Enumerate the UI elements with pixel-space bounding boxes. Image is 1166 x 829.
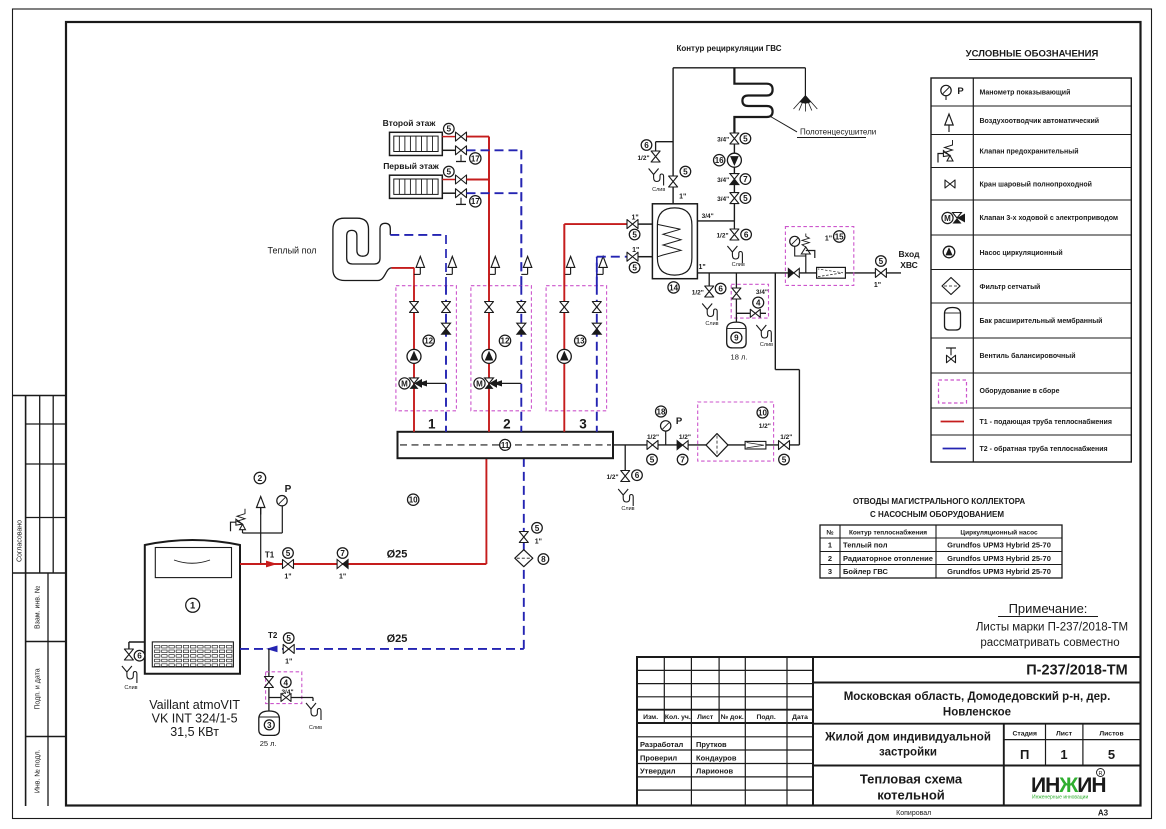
supply valve 5 to heater — [627, 215, 640, 240]
svg-text:7: 7 — [743, 175, 748, 184]
svg-text:7: 7 — [680, 455, 685, 464]
svg-text:5: 5 — [632, 230, 637, 239]
recirc drain branch valve 6 — [656, 141, 674, 143]
svg-text:Клапан предохранительный: Клапан предохранительный — [980, 148, 1079, 156]
svg-text:12: 12 — [501, 337, 510, 346]
expansion tank 9 — [727, 322, 746, 348]
legend symbol ball valve — [945, 180, 955, 188]
legend symbol T2 pipe — [943, 448, 966, 450]
title block frame — [637, 657, 1141, 806]
svg-text:Слив: Слив — [732, 262, 745, 268]
equipment box 15 — [785, 227, 853, 286]
svg-text:Московская область, Домодедовс: Московская область, Домодедовский р-н, д… — [844, 691, 1111, 703]
safety valve — [231, 509, 246, 533]
svg-text:VK INT 324/1-5: VK INT 324/1-5 — [152, 712, 238, 726]
svg-text:5: 5 — [286, 634, 291, 643]
svg-text:3/4": 3/4" — [281, 689, 293, 696]
return valve circuit 2 — [517, 302, 526, 313]
return valve 17 first floor — [442, 192, 455, 194]
heater DHW outlet — [697, 220, 734, 222]
svg-text:3: 3 — [828, 567, 832, 576]
air vent riser — [260, 508, 262, 565]
boiler drain pipe — [129, 641, 145, 643]
svg-text:ОТВОДЫ МАГИСТРАЛЬНОГО КОЛЛЕКТО: ОТВОДЫ МАГИСТРАЛЬНОГО КОЛЛЕКТОРА — [853, 497, 1026, 506]
svg-text:Оборудование в сборе: Оборудование в сборе — [980, 387, 1060, 395]
riser pipe above box 5 — [596, 257, 598, 287]
T1 flow arrow — [266, 561, 278, 568]
svg-text:Теплый пол: Теплый пол — [843, 541, 888, 550]
ball valve 5 on T2 — [283, 633, 294, 666]
svg-text:5: 5 — [683, 167, 688, 176]
svg-text:10: 10 — [409, 496, 418, 505]
svg-text:рассматривать совместно: рассматривать совместно — [980, 637, 1119, 649]
svg-text:16: 16 — [715, 156, 724, 165]
bypass line circuit 1 — [422, 382, 446, 384]
supply valve circuit 1 — [410, 302, 419, 313]
svg-text:6: 6 — [137, 652, 142, 661]
svg-text:5: 5 — [632, 263, 637, 272]
floor heating loop — [333, 218, 392, 280]
svg-text:3: 3 — [267, 721, 272, 730]
svg-text:Циркуляционный насос: Циркуляционный насос — [960, 529, 1038, 537]
gauge in box 15 — [790, 236, 806, 256]
air vent stub 0 — [414, 273, 420, 275]
svg-text:Подп. и дата: Подп. и дата — [35, 668, 42, 709]
svg-text:Радиаторное отопление: Радиаторное отопление — [843, 554, 933, 563]
tank branch valve — [735, 273, 737, 289]
svg-text:Утвердил: Утвердил — [640, 767, 676, 776]
3-way valve circuit 2 — [474, 378, 497, 389]
safety group manifold — [243, 532, 283, 534]
svg-text:Т2 - обратная труба теплоснабж: Т2 - обратная труба теплоснабжения — [980, 445, 1108, 453]
recirculation left riser — [672, 68, 674, 204]
svg-text:P: P — [285, 484, 292, 495]
makeup pipe — [613, 444, 799, 446]
cold water drain valve 6 — [708, 273, 710, 286]
svg-text:Инв. № подл.: Инв. № подл. — [35, 749, 42, 793]
svg-text:Разработал: Разработал — [640, 740, 684, 749]
svg-text:Кондауров: Кондауров — [696, 753, 737, 762]
svg-text:Проверил: Проверил — [640, 753, 677, 762]
svg-text:8: 8 — [541, 555, 546, 564]
makeup ball valve 5 right — [779, 434, 793, 465]
svg-text:Бойлер ГВС: Бойлер ГВС — [843, 567, 888, 576]
svg-text:1: 1 — [828, 541, 832, 550]
svg-text:1": 1" — [874, 282, 881, 289]
svg-text:25 л.: 25 л. — [260, 739, 277, 748]
logo ИНЖИН — [1031, 769, 1106, 801]
svg-text:Листы марки П-237/2018-ТМ: Листы марки П-237/2018-ТМ — [976, 622, 1128, 634]
air vent stub 2 — [489, 273, 495, 275]
supply valve circuit 2 — [485, 302, 494, 313]
expansion branch pipe — [268, 649, 270, 677]
svg-text:Ø25: Ø25 — [387, 549, 408, 561]
svg-text:Слив: Слив — [124, 685, 137, 691]
svg-text:1": 1" — [339, 574, 346, 581]
svg-text:3/4": 3/4" — [717, 137, 729, 144]
svg-text:Жилой дом индивидуальной: Жилой дом индивидуальной — [824, 732, 991, 744]
tank branch drain valve 4 — [736, 312, 766, 314]
svg-text:M: M — [401, 379, 408, 388]
svg-text:1": 1" — [825, 236, 832, 243]
makeup check valve 7 — [677, 434, 691, 465]
svg-text:5: 5 — [650, 455, 655, 464]
equipment box 4 — [266, 672, 302, 704]
svg-text:Теплый пол: Теплый пол — [267, 246, 316, 256]
svg-text:1: 1 — [1060, 747, 1067, 762]
makeup ball valve 5 — [647, 434, 659, 465]
return valve 5 from heater — [627, 247, 640, 273]
svg-text:5: 5 — [535, 524, 540, 533]
return valve circuit 1 — [442, 302, 451, 313]
svg-text:1/2": 1/2" — [780, 434, 792, 441]
shower pipe — [804, 68, 806, 96]
svg-text:2: 2 — [503, 417, 511, 432]
svg-text:6: 6 — [644, 141, 649, 150]
pipe T1 boiler to collector — [240, 563, 486, 565]
strainer in box 10 — [706, 434, 728, 457]
svg-text:А3: А3 — [1098, 809, 1109, 818]
recirc drain funnel — [649, 169, 666, 194]
svg-text:Слив: Слив — [760, 342, 773, 348]
svg-text:Ларионов: Ларионов — [696, 767, 734, 776]
supply valve circuit 3 — [560, 302, 569, 313]
svg-text:Grundfos UPM3 Hybrid 25-70: Grundfos UPM3 Hybrid 25-70 — [947, 554, 1051, 563]
air vent 5 — [602, 267, 604, 274]
makeup drain branch valve 6 — [624, 445, 626, 471]
svg-text:11: 11 — [501, 441, 510, 450]
air vent stub 5 — [597, 273, 603, 275]
recirc return valve 5 — [669, 166, 691, 200]
air vent 4 — [570, 267, 572, 274]
svg-text:Листов: Листов — [1099, 731, 1123, 738]
supply riser circuit 2 — [488, 286, 490, 432]
legend symbol manometer — [941, 85, 965, 100]
water heater tank 14 — [652, 204, 697, 279]
svg-text:2: 2 — [258, 473, 263, 483]
svg-text:П: П — [1020, 747, 1029, 762]
air vent 1 — [451, 267, 453, 274]
svg-text:18: 18 — [657, 407, 666, 416]
boiler drain funnel — [122, 666, 138, 691]
legend symbol air vent — [945, 114, 953, 132]
strainer 8 on T2 riser — [515, 550, 549, 567]
svg-text:Изм.: Изм. — [643, 714, 658, 721]
shower head — [794, 96, 818, 112]
svg-text:Тепловая схема: Тепловая схема — [860, 772, 963, 787]
svg-text:Первый этаж: Первый этаж — [383, 161, 440, 171]
svg-text:Кол. уч.: Кол. уч. — [665, 714, 691, 721]
left stamp grid — [13, 396, 67, 807]
svg-text:14: 14 — [669, 283, 678, 292]
collector 11 — [398, 432, 614, 458]
svg-text:5: 5 — [743, 194, 748, 203]
3-way valve circuit 1 — [399, 378, 422, 389]
recirculation top pipe — [673, 67, 805, 69]
svg-text:Кран шаровый полнопроходной: Кран шаровый полнопроходной — [980, 180, 1092, 188]
svg-text:Подп.: Подп. — [756, 714, 775, 721]
svg-text:Инженерные инновации: Инженерные инновации — [1032, 795, 1088, 801]
valve in box 4 — [268, 677, 270, 711]
legend symbol expansion tank — [945, 308, 961, 331]
svg-text:1/2": 1/2" — [692, 290, 704, 297]
supply riser circuit 1 — [413, 286, 415, 432]
svg-text:Копировал: Копировал — [896, 810, 931, 817]
svg-text:Стадия: Стадия — [1012, 731, 1037, 738]
svg-text:15: 15 — [835, 232, 844, 241]
svg-text:1": 1" — [535, 539, 542, 546]
svg-text:1/2": 1/2" — [679, 434, 691, 441]
DHW check valve 7 — [717, 174, 751, 185]
pump group label 12 — [499, 335, 510, 346]
svg-text:5: 5 — [447, 168, 452, 177]
signature rows — [640, 740, 727, 749]
svg-text:9: 9 — [734, 333, 739, 342]
svg-text:Манометр показывающий: Манометр показывающий — [980, 89, 1071, 97]
svg-text:Прутков: Прутков — [696, 740, 727, 749]
svg-text:R: R — [1099, 771, 1103, 777]
recirculation pump 16 — [714, 153, 742, 167]
svg-text:котельной: котельной — [877, 788, 945, 803]
svg-text:Насос циркуляционный: Насос циркуляционный — [980, 249, 1063, 257]
bypass line circuit 2 — [497, 382, 521, 384]
svg-text:1": 1" — [631, 215, 638, 222]
pump group label 13 — [575, 335, 586, 346]
collector outlets table — [820, 525, 1062, 578]
svg-text:12: 12 — [424, 337, 433, 346]
svg-text:Ø25: Ø25 — [387, 633, 408, 645]
supply valve 5 first floor — [442, 179, 455, 181]
svg-text:1/2": 1/2" — [606, 474, 618, 481]
supply riser circuit 3 — [563, 286, 565, 432]
DHW riser valve 5 bottom — [717, 193, 751, 204]
air vent 2 — [257, 497, 265, 515]
svg-text:Лист: Лист — [1056, 731, 1073, 738]
svg-text:УСЛОВНЫЕ ОБОЗНАЧЕНИЯ: УСЛОВНЫЕ ОБОЗНАЧЕНИЯ — [966, 49, 1099, 60]
svg-text:17: 17 — [471, 154, 480, 163]
return pipe second floor — [467, 149, 522, 151]
air vent stub 3 — [521, 273, 527, 275]
towel label leader — [771, 117, 798, 132]
check valve 7 on T1 — [337, 548, 348, 581]
svg-text:1": 1" — [698, 264, 705, 271]
ball valve 5 on T2 riser — [519, 523, 542, 546]
boiler drain valve 6 — [124, 649, 144, 661]
svg-text:С НАСОСНЫМ ОБОРУДОВАНИЕМ: С НАСОСНЫМ ОБОРУДОВАНИЕМ — [870, 510, 1004, 519]
svg-text:17: 17 — [471, 197, 480, 206]
svg-text:3/4": 3/4" — [702, 213, 714, 220]
legend symbol balancing valve — [946, 348, 956, 363]
svg-text:Слив: Слив — [309, 725, 322, 731]
svg-text:6: 6 — [718, 284, 723, 293]
svg-text:Дата: Дата — [792, 714, 808, 721]
svg-text:1/2": 1/2" — [759, 423, 771, 430]
svg-text:Второй этаж: Второй этаж — [383, 118, 437, 128]
riser pipe above box 0 — [413, 268, 415, 287]
floor loop supply pipe — [392, 267, 415, 269]
svg-text:Слив: Слив — [705, 321, 718, 327]
svg-text:5: 5 — [447, 125, 452, 134]
DHW riser valve 5 top — [733, 133, 735, 221]
air vent 0 — [419, 267, 421, 274]
svg-text:3/4": 3/4" — [756, 289, 768, 296]
svg-text:31,5 КВт: 31,5 КВт — [170, 725, 219, 739]
supply valve 5 second floor — [442, 136, 455, 138]
return valve 17 second floor — [442, 149, 455, 151]
equipment box circuit 2 — [471, 286, 532, 411]
svg-text:Grundfos UPM3 Hybrid 25-70: Grundfos UPM3 Hybrid 25-70 — [947, 541, 1051, 550]
svg-text:застройки: застройки — [879, 747, 937, 759]
makeup gauge 18 — [656, 406, 683, 445]
DHW drain valve 6 — [733, 221, 735, 230]
svg-text:№ док.: № док. — [721, 714, 744, 721]
svg-text:Полотенцесушители: Полотенцесушители — [800, 128, 876, 137]
svg-text:Воздухоотводчик автоматический: Воздухоотводчик автоматический — [980, 117, 1100, 125]
svg-text:Контур рециркуляции ГВС: Контур рециркуляции ГВС — [676, 44, 781, 53]
legend symbol equipment assembly — [939, 380, 967, 403]
svg-text:6: 6 — [635, 471, 640, 480]
branch to drain valve 4 — [269, 697, 313, 699]
air vent 2 — [494, 267, 496, 274]
return riser circuit 3 — [596, 286, 598, 432]
T2 flow arrow — [266, 646, 278, 653]
return riser circuit 2 — [520, 286, 522, 432]
svg-text:5: 5 — [782, 455, 787, 464]
svg-text:Лист: Лист — [697, 714, 714, 721]
supply pipe second floor — [467, 136, 490, 138]
svg-text:Vaillant atmoVIT: Vaillant atmoVIT — [149, 698, 240, 712]
equipment box circuit 1 — [396, 286, 457, 411]
svg-text:1/2": 1/2" — [647, 434, 659, 441]
legend symbol strainer — [942, 278, 960, 295]
legend symbol pump — [943, 246, 955, 258]
pump circuit 1 — [407, 349, 421, 363]
svg-text:Вход: Вход — [898, 249, 920, 259]
pump group label 12 — [423, 335, 434, 346]
equipment box circuit 3 — [546, 286, 607, 411]
svg-text:3/4": 3/4" — [717, 177, 729, 184]
svg-text:1": 1" — [679, 194, 686, 201]
circuit 3 return pipe — [596, 257, 598, 286]
water meter in box 10 — [745, 441, 766, 449]
svg-text:P: P — [676, 416, 683, 427]
svg-text:Бак расширительный мембранный: Бак расширительный мембранный — [980, 317, 1103, 325]
svg-text:Слив: Слив — [621, 506, 634, 512]
drain funnel near tank 3 — [306, 703, 322, 731]
svg-text:П-237/2018-ТМ: П-237/2018-ТМ — [1026, 663, 1128, 679]
pressure reducer in box 15 — [801, 234, 815, 273]
svg-text:3: 3 — [579, 417, 587, 432]
check valve circuit 1 — [442, 323, 451, 334]
svg-text:Т1 - подающая труба теплоснабж: Т1 - подающая труба теплоснабжения — [980, 418, 1112, 426]
svg-text:Согласовано: Согласовано — [17, 520, 24, 562]
legend symbol T1 pipe — [941, 421, 964, 423]
expansion tank 3 — [259, 711, 280, 735]
svg-text:4: 4 — [756, 298, 761, 307]
svg-text:M: M — [944, 214, 951, 223]
floor loop return pipe — [390, 234, 446, 236]
svg-text:Взам. инв. №: Взам. инв. № — [35, 586, 42, 629]
svg-text:13: 13 — [576, 337, 585, 346]
svg-text:1": 1" — [285, 659, 292, 666]
drain funnel near tank 9 — [756, 325, 773, 348]
svg-text:T1: T1 — [265, 551, 275, 560]
legend symbol safety valve — [938, 140, 953, 163]
svg-text:5: 5 — [743, 134, 748, 143]
circuit 3 supply pipe — [563, 224, 565, 286]
svg-text:1": 1" — [632, 247, 639, 254]
DHW drain funnel — [727, 246, 744, 268]
check valve circuit 2 — [517, 323, 526, 334]
boiler Vaillant atmoVIT unit 1 — [145, 540, 240, 674]
ball valve 5 on T1 — [283, 548, 294, 581]
svg-text:№: № — [826, 530, 833, 537]
svg-text:Клапан 3-х ходовой с электропр: Клапан 3-х ходовой с электроприводом — [980, 214, 1119, 222]
air vent stub 1 — [446, 273, 452, 275]
riser pipe above box 4 — [563, 224, 565, 286]
svg-text:5: 5 — [1108, 747, 1115, 762]
svg-text:1: 1 — [190, 601, 196, 612]
svg-text:M: M — [476, 379, 483, 388]
water meter in box 15 — [817, 267, 846, 278]
svg-text:2: 2 — [828, 554, 832, 563]
pump circuit 2 — [482, 349, 496, 363]
svg-text:5: 5 — [286, 549, 291, 558]
riser pipe above box 1 — [445, 235, 447, 286]
boiler label circle 1 — [186, 598, 200, 612]
svg-text:6: 6 — [744, 230, 749, 239]
svg-text:10: 10 — [758, 408, 767, 417]
check valve in box 15 — [788, 268, 799, 277]
svg-text:4: 4 — [284, 678, 289, 687]
svg-text:Примечание:: Примечание: — [1009, 601, 1088, 616]
check valve circuit 3 — [592, 323, 601, 334]
radiator second floor — [390, 132, 443, 155]
svg-text:18 л.: 18 л. — [731, 353, 748, 362]
return valve circuit 3 — [592, 302, 601, 313]
riser pipe above box 2 — [488, 137, 490, 287]
riser pipe above box 3 — [520, 150, 522, 286]
svg-text:1/2": 1/2" — [716, 233, 728, 240]
svg-text:1: 1 — [428, 417, 436, 432]
svg-text:Фильтр сетчатый: Фильтр сетчатый — [980, 283, 1041, 291]
equipment box 10 — [698, 402, 774, 461]
svg-text:Контур теплоснабжения: Контур теплоснабжения — [849, 529, 927, 537]
svg-text:P: P — [957, 86, 964, 97]
svg-text:ХВС: ХВС — [900, 260, 918, 270]
legend symbol 3-way valve — [942, 212, 965, 223]
legend table — [931, 78, 1131, 462]
pressure gauge P — [277, 484, 292, 533]
return riser circuit 1 — [445, 286, 447, 432]
makeup drain funnel — [618, 489, 634, 512]
cold water drain funnel — [702, 304, 718, 328]
pipe T2 boiler to collector — [240, 648, 524, 650]
air vent 3 — [527, 267, 529, 274]
equipment box 4b — [731, 284, 768, 318]
svg-text:7: 7 — [340, 549, 345, 558]
air vent stub 4 — [564, 273, 570, 275]
towel radiator meander — [734, 68, 772, 133]
svg-text:Grundfos UPM3 Hybrid 25-70: Grundfos UPM3 Hybrid 25-70 — [947, 567, 1051, 576]
inlet ball valve 5 — [874, 256, 887, 289]
svg-text:3/4": 3/4" — [717, 196, 729, 203]
svg-text:1/2": 1/2" — [637, 155, 649, 162]
svg-text:Новленское: Новленское — [943, 707, 1011, 719]
svg-text:Вентиль балансировочный: Вентиль балансировочный — [980, 352, 1076, 360]
svg-text:5: 5 — [879, 257, 884, 266]
title block header texts — [643, 714, 808, 721]
